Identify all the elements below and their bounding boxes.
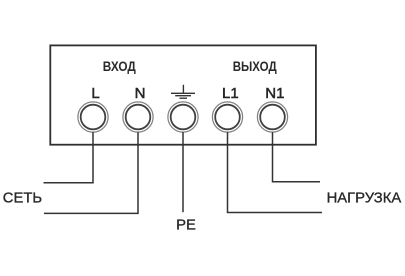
svg-text:L: L: [91, 85, 99, 102]
terminal N1: [257, 102, 287, 132]
svg-text:СЕТЬ: СЕТЬ: [3, 190, 42, 206]
wire L1 to НАГРУЗКА: [228, 132, 323, 212]
wire L to СЕТЬ: [44, 132, 94, 183]
svg-text:ВХОД: ВХОД: [103, 58, 136, 74]
terminal L: [78, 102, 108, 132]
wire N to СЕТЬ: [44, 132, 138, 213]
svg-text:НАГРУЗКА: НАГРУЗКА: [327, 191, 402, 207]
svg-text:PE: PE: [176, 218, 196, 234]
svg-text:L1: L1: [222, 85, 239, 102]
terminal PE: [168, 102, 198, 132]
svg-text:N: N: [135, 85, 146, 102]
ground symbol: [171, 85, 195, 98]
svg-text:N1: N1: [265, 85, 284, 102]
terminal L1: [212, 102, 242, 132]
wire PE: [182, 132, 184, 212]
terminal N: [123, 102, 153, 132]
wire N1 to НАГРУЗКА: [273, 132, 321, 182]
enclosure box: [50, 45, 316, 144]
svg-text:ВЫХОД: ВЫХОД: [233, 58, 277, 74]
